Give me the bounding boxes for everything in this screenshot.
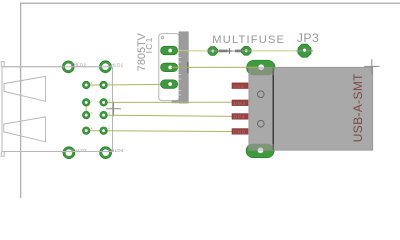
IC1 package outline [159,34,179,101]
body hole circle 1 [258,91,265,98]
muted overlap of bottom mount pad under body [246,144,274,158]
svg-text:DM4: DM4 [234,101,247,107]
red SMT pad D+ [232,114,248,121]
airwire IC1 pad1 to multifuse [177,50,213,52]
JP3 pad [296,44,313,57]
IC1 origin tick [187,62,189,73]
red SMT pad D- [232,100,248,107]
IC1 heatsink tab [179,32,188,103]
IC1 pad 3 [161,80,178,88]
USB-A-SMT mount pad top (bright part drawn first) [247,60,276,75]
trapezoid tongue 1 [4,76,46,101]
frame border [21,3,400,198]
front edge dark line [272,68,274,150]
small pad row1 left [82,81,90,89]
red SMT pad VCC [232,83,248,90]
small pad row4 left [82,127,90,135]
svg-text:SHLD3: SHLD3 [71,148,87,153]
IC1 tab notch ticks [179,58,182,95]
USB-A-SMT connector body [249,67,373,150]
USB-A-SMT mount pad bottom [246,144,274,158]
airwire IC1 pad2 to mount pad hole [171,66,259,68]
small pad row1 right [100,81,108,89]
small pad row4 right [100,127,108,135]
airwire multifuse to JP3 [246,50,304,52]
USB-A-SMT origin cross [364,59,379,74]
tiny pad name labels [91,81,110,131]
airwire vertical rows2-3 [85,102,87,115]
airwire row3 to red pad [104,115,234,116]
shield pad SHLD1 [100,61,112,73]
muted overlap of top mount pad under body [247,60,276,75]
svg-text:USB-A-SMT: USB-A-SMT [351,73,365,142]
IC1 pin-1 marker circle [161,36,164,39]
svg-text:SHLD4: SHLD4 [108,148,124,153]
red SMT pad GND [232,129,248,136]
small pad row3 left [82,111,90,119]
small pad row2 left [82,99,90,107]
multifuse pad 1 [208,47,218,56]
airwire GND row4 to red pad [86,130,233,133]
svg-text:MULTIFUSE: MULTIFUSE [212,34,285,46]
origin cross X1 [106,102,121,117]
IC1 pad 1 [161,46,178,54]
svg-text:JP3: JP3 [297,31,319,45]
IC1 tab foot [172,100,180,103]
shield pad SHLD2 [62,61,74,73]
body hole circle 2 [258,120,265,127]
IC1 pad 2 [161,63,178,71]
airwire row2 to red pad [104,101,234,103]
svg-text:GND: GND [233,130,245,136]
airwire VCC row1 to IC1 pad3 [86,83,170,86]
front line dimmed over pads [272,68,274,151]
trapezoid tongue 2 [4,117,46,142]
outline lines redrawn over shield pads [2,67,114,152]
small pad row2 right [100,99,108,107]
multifuse pad 2 [242,46,252,55]
USB-A receptacle outline X1 [1,62,114,157]
shield pad SHLD4 [100,147,112,159]
svg-text:VCC: VCC [233,84,245,90]
multifuse body [213,48,246,54]
small pad row3 right [100,111,108,119]
shield pad SHLD3 [63,147,75,159]
svg-text:DP4: DP4 [234,115,246,121]
svg-text:IC1: IC1 [144,36,154,53]
